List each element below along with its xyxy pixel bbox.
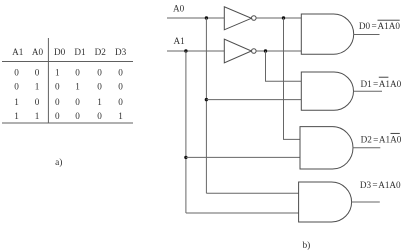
svg-text:1: 1 [35,82,40,92]
label D2 = A1/A0 [361,133,402,144]
svg-text:=: = [373,79,378,89]
and-gate G1 (output D1) [301,72,353,110]
svg-text:=: = [372,21,377,31]
wire A1 to gate G3 bottom input [186,212,299,214]
wire D2 output [353,147,380,149]
svg-text:0: 0 [97,111,102,121]
label D1 = /A1 A0 [361,77,402,89]
wire U1 output to gate G0 top input [256,17,301,19]
svg-text:A0: A0 [32,47,44,57]
wire A0 rail down [205,18,207,193]
svg-text:0: 0 [118,97,123,107]
svg-text:b): b) [302,240,310,251]
svg-text:0: 0 [55,97,60,107]
svg-text:0: 0 [118,68,123,78]
svg-text:D3: D3 [360,180,372,190]
svg-text:A0: A0 [173,3,185,13]
truth table bottom rule [2,122,133,124]
svg-text:A1A0: A1A0 [379,134,402,144]
svg-text:0: 0 [75,111,80,121]
svg-text:1: 1 [14,111,19,121]
wire D1 output [354,90,383,92]
svg-text:=: = [373,134,378,144]
svg-text:D2: D2 [95,47,107,57]
svg-text:A1: A1 [174,36,186,46]
svg-text:a): a) [55,157,62,168]
wire A1 to gate G2 bottom input [186,156,300,158]
svg-text:D1: D1 [361,79,373,89]
svg-text:D1: D1 [74,47,86,57]
svg-text:0: 0 [75,68,80,78]
junction A0 rail to D1 input [205,98,208,101]
svg-text:D3: D3 [115,47,127,57]
wire /A0 rail to gate G2 top input [284,18,301,139]
truth table vertical divider [47,38,49,123]
and-gate G0 (output D0) [301,14,353,54]
svg-text:D2: D2 [361,134,373,144]
svg-text:A1A0: A1A0 [378,180,401,190]
svg-text:1: 1 [14,97,19,107]
inverter U2 (A1) [224,39,256,63]
wire A1 input [167,50,224,52]
svg-text:1: 1 [97,97,102,107]
truth table row 4 : 1 1 0 0 0 1 [14,111,123,121]
svg-text:D0: D0 [359,21,371,31]
junction on A1 wire [184,49,187,52]
truth table rule under header [2,61,133,63]
svg-text:0: 0 [35,68,40,78]
and-gate G2 (output D2) [300,127,353,169]
svg-text:1: 1 [55,68,60,78]
wire /A1 rail to gate G1 top input [266,51,302,81]
wire D3 output [352,201,380,203]
label D0 = /A1/A0 [359,20,400,31]
svg-text:A1: A1 [12,47,24,57]
truth table row 3 : 1 0 0 0 1 0 [14,97,123,107]
svg-text:A1A0: A1A0 [378,21,401,31]
svg-text:=: = [372,180,377,190]
svg-text:0: 0 [97,68,102,78]
svg-text:A1A0: A1A0 [379,79,402,89]
wire A1 rail down [185,51,187,213]
svg-text:0: 0 [35,97,40,107]
svg-text:0: 0 [14,82,19,92]
svg-text:D0: D0 [54,47,66,57]
svg-text:1: 1 [35,111,40,121]
wire A0 to gate G3 top input [206,192,298,194]
svg-text:0: 0 [97,82,102,92]
wire A0 input [167,17,224,19]
svg-text:1: 1 [118,111,123,121]
svg-text:0: 0 [14,68,19,78]
truth table header row [12,47,127,57]
wire D0 output [354,34,380,36]
wire U2 output to gate G0 bottom input [256,50,301,52]
wire A0 to gate G1 bottom input [206,99,301,101]
inverter U1 (A0) [224,7,256,30]
svg-text:0: 0 [55,82,60,92]
junction on U1 output [282,16,285,19]
truth table row 1 : 0 0 1 0 0 0 [14,68,123,78]
junction on A0 wire [205,16,208,19]
svg-text:0: 0 [75,97,80,107]
svg-text:0: 0 [118,82,123,92]
junction on U2 output [264,49,267,52]
truth table row 2 : 0 1 0 1 0 0 [14,82,123,92]
svg-text:1: 1 [75,82,80,92]
svg-text:0: 0 [55,111,60,121]
label D3 = A1A0 [360,180,401,190]
junction A1 rail to D2 input [184,156,187,159]
and-gate G3 (output D3) [299,182,352,222]
